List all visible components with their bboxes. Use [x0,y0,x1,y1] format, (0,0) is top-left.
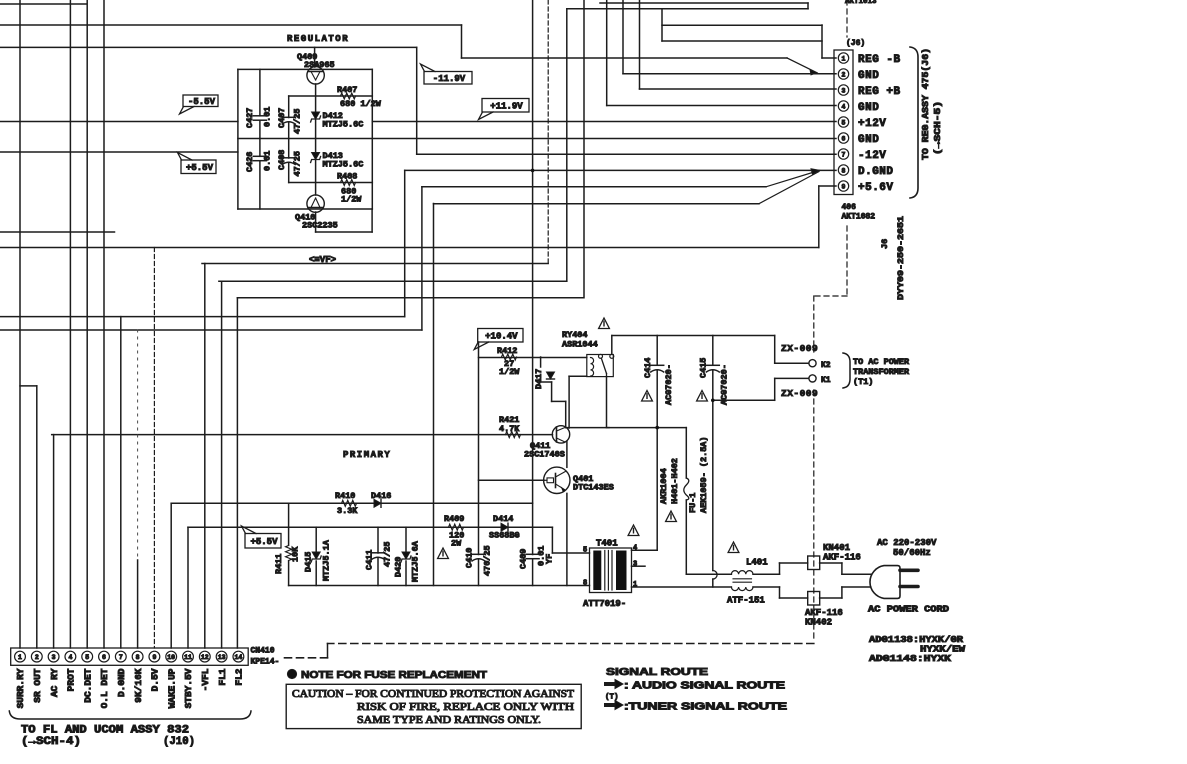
svg-text:<≡VF>: <≡VF> [309,255,336,265]
label D412 [323,111,364,130]
svg-text:D.GND: D.GND [116,668,127,697]
label FU-1 AEK1059 [688,436,709,513]
wire regulator inner top rail [289,95,373,97]
CN410 pin 6 [99,651,110,662]
svg-text:4: 4 [68,654,72,661]
svg-text:C408: C408 [277,150,287,170]
resistor R408 [341,180,356,186]
J6 pin 4 [838,101,848,111]
svg-text:2SC1740S: 2SC1740S [524,450,565,460]
diode D414 [501,523,508,531]
label D420 [394,540,421,582]
svg-text:D.GND: D.GND [858,166,894,178]
CN410 pin 1 [15,651,26,662]
wire vertical x416 [416,47,418,154]
svg-text:R410: R410 [335,491,355,501]
transistor Q410 [307,195,324,212]
tuner route arrow [606,701,623,710]
wire Q401 emitter down [566,493,568,585]
resistor R412 [502,354,517,360]
wire J6 pin1 entry [822,25,836,58]
wire vertical CN410 pin5 [86,0,88,648]
CN410 pin 5 [82,651,93,662]
svg-text:5: 5 [85,654,89,661]
svg-text:ATT7019-: ATT7019- [583,599,626,609]
svg-text:AC POWER CORD: AC POWER CORD [868,605,950,615]
label ADG1148 [869,654,952,664]
label D415 [304,539,332,581]
capacitor C407 [282,116,295,118]
label R411 [274,546,301,574]
svg-text:1: 1 [633,581,637,589]
wire vertical CN410 pin6 [103,0,105,648]
CN410 pin 10 [166,651,177,662]
svg-text:(→SCH-4): (→SCH-4) [21,736,81,748]
wire K1 leg [713,378,809,400]
flag +5.5V lower [245,534,281,549]
wire C415 lower leg with hop [712,400,714,570]
svg-text:DTC143ES: DTC143ES [573,483,614,493]
resistor R410 [342,500,357,506]
label CN410 pin 1 SURR.RY [15,668,26,708]
label NOTE FOR FUSE REPLACEMENT [301,670,487,681]
svg-text:50/60Hz: 50/60Hz [893,548,931,558]
wire C415 column [712,336,714,401]
label J6 small [880,239,890,249]
junction dot K1 branch [711,399,715,403]
svg-text:AKF-116: AKF-116 [823,553,861,563]
svg-text:DYY09-250-2651: DYY09-250-2651 [896,216,906,300]
J6 bracket [910,47,918,198]
svg-text:D416: D416 [371,491,391,501]
J6 pin 2 [838,69,848,79]
svg-text:SURR.RY: SURR.RY [15,668,26,708]
wire GND mid rail to J6 pin6 [238,138,836,140]
svg-text:C414: C414 [643,358,653,378]
wire +10.4V drop [478,342,480,586]
svg-text:STBY.5V: STBY.5V [183,668,194,708]
label J6 pin 5 +12V [858,118,886,130]
label D416 [371,491,391,501]
warning triangle relay [599,318,610,329]
wire D.5V route [0,329,422,331]
J6 pin 5 [838,117,848,127]
svg-text:KPE14-: KPE14- [251,658,280,667]
label AKR1004 H401-H402 [659,458,680,504]
wire coil bottom [569,375,587,377]
label CN410 pin 2 SR OUT [32,668,43,703]
dashed boundary bottom [328,643,814,645]
capacitor C409 [526,553,539,555]
wire zener column [315,84,317,195]
svg-text:ZX-009: ZX-009 [781,343,818,354]
label D417 [534,369,544,389]
J6 pin 9 [838,181,848,191]
junction dot C414 bottom [655,426,659,430]
label CN410 pin 8 9K/16K [133,668,144,703]
svg-text:PROT: PROT [66,668,77,691]
CN410 pin 3 [48,651,59,662]
wire vertical x584 [583,0,585,298]
label J6 pin 2 GND [858,70,879,82]
CN410 pin 9 [149,651,160,662]
svg-text:47/25: 47/25 [293,108,303,134]
zener D412 [312,112,320,119]
label J6 pin 3 REG +B [858,86,901,98]
label C415 [699,358,730,405]
dashed line above J6 [846,0,848,37]
J6 pin 6 [838,133,848,143]
label CN410 pin 4 PROT [66,668,77,691]
wire regulator inner bottom rail [289,182,373,184]
CN410 pin 13 [216,651,227,662]
terminal K1 [809,375,816,382]
svg-text:1/2W: 1/2W [499,367,520,377]
svg-text:7: 7 [119,654,123,661]
svg-text::TUNER SIGNAL ROUTE: :TUNER SIGNAL ROUTE [624,702,787,713]
label Q401 [573,474,614,493]
flag -11.9V [424,72,472,85]
wire FL2 route [237,297,583,299]
svg-text:9K/16K: 9K/16K [133,668,144,703]
dashed stub to KPE14 [283,657,328,659]
svg-text:+11.9V: +11.9V [490,102,523,112]
label Q410 [295,213,338,231]
svg-text:ACG7020-: ACG7020- [720,364,730,405]
svg-text:AC RY: AC RY [49,668,60,697]
wire regulator right rail stub [371,209,373,232]
svg-text:MTZJ5.6C: MTZJ5.6C [323,120,364,130]
svg-text:AC 220-230V: AC 220-230V [877,538,937,548]
wire plug top conductor [753,563,871,574]
label ATF-151 [727,596,765,606]
label KN401 AKF-116 [823,543,861,563]
wire vertical CN410 pin10 [170,503,172,648]
note bullet [287,669,296,678]
svg-text:680 1/2W: 680 1/2W [340,99,382,109]
svg-text:AKR1004: AKR1004 [659,468,669,504]
dashed vertical to AC section [813,296,815,642]
svg-text:4.7K: 4.7K [499,424,520,434]
inductor L401 [731,571,753,591]
svg-text:MTZJ5.6C: MTZJ5.6C [323,160,364,170]
svg-text:TO FL AND UCOM ASSY 832: TO FL AND UCOM ASSY 832 [21,725,189,737]
wire y25 bus right [662,24,822,26]
connector CN410 outline [11,648,249,665]
wire vertical x533 long [532,0,534,586]
svg-text:10K: 10K [291,546,301,562]
label TO AC POWER TRANSFORMER [853,357,910,387]
svg-text:4: 4 [633,545,637,553]
J6 pin 7 [838,149,848,159]
wire regulator top rail [238,68,372,70]
transistor Q411 [552,426,569,443]
label ZX-009 bottom [781,388,818,399]
svg-text:ACG7020-: ACG7020- [664,364,674,405]
label Q409 [297,52,335,70]
wire C415 leg join [712,579,714,587]
J6 pin 3 [838,85,848,95]
terminal K2 [809,360,816,367]
label TO FL AND UCOM ASSY 832 [21,725,189,737]
svg-text:ZX-009: ZX-009 [781,388,818,399]
wire diagonal y187 into pin8 [766,169,820,187]
svg-text:AKT1082: AKT1082 [842,213,876,222]
label T401 pin5 [583,547,587,555]
label ATT7019- [583,599,626,609]
wire vertical CN410 pin14 [236,298,238,648]
caution text line1 [292,689,575,700]
label K2 [821,361,831,370]
diode D416 [374,499,381,507]
svg-text:(J6): (J6) [846,39,865,48]
svg-text:AKF-116: AKF-116 [805,608,843,618]
svg-text:-5.5V: -5.5V [188,97,216,107]
wire vertical CN410 pin3 [53,435,55,648]
svg-text:R409: R409 [444,514,464,524]
label ZX-009 top [781,343,818,354]
fuse FU-1 [684,478,689,500]
svg-text:1/2W: 1/2W [341,195,362,205]
label T401 pin4 [633,545,637,553]
wire diagonal into J6 pin2 [787,58,817,75]
wire REG -B bus [462,25,788,58]
wire D415 column [315,527,317,585]
svg-text:MTZJ5.1A: MTZJ5.1A [322,539,332,581]
wire regulator left rail [237,69,239,209]
wire REG +B bus to J6 pin3 [640,88,837,90]
svg-text:GND: GND [858,134,879,146]
wire Q411 collector [568,376,570,428]
svg-text:C407: C407 [277,108,287,128]
label VF tag [309,255,336,265]
svg-text:RISK OF FIRE, REPLACE ONLY WIT: RISK OF FIRE, REPLACE ONLY WITH [357,702,574,713]
label CN410 pin 12 -VFL [200,668,211,691]
label CN410 [251,647,275,656]
label 406 AKT1082 [842,203,876,222]
transformer T401 [590,548,632,593]
caution text line3 [357,715,541,726]
label DYY09-250-2651 [896,216,906,300]
svg-text:+5.6V: +5.6V [858,182,894,194]
svg-text:10: 10 [167,654,175,661]
wire vertical CN410 pin13 [221,281,223,648]
wire R409 row [188,526,552,528]
label CN410 pin 6 O.L DET [99,668,110,708]
wire C426 column [259,139,261,210]
warning triangle C414 [642,391,653,402]
label KPE14- [251,658,280,667]
svg-text:6: 6 [842,136,846,143]
label AC POWER CORD [868,605,950,615]
svg-text:5: 5 [842,120,846,127]
capacitor C427 [253,115,266,117]
wire C408 column [288,139,290,183]
svg-text:R408: R408 [337,172,357,182]
svg-text:6: 6 [102,654,106,661]
label AUDIO SIGNAL ROUTE [624,681,785,692]
wire vertical CN410 pin7 [120,317,122,648]
warning triangle ladder [438,548,449,559]
relay RY404 [587,354,614,376]
transistor Q401 [544,467,570,493]
wire -12V bus to J6 pin7 [417,153,836,155]
label R408 [337,172,362,205]
svg-text:K2: K2 [821,361,831,370]
svg-text:FU-1: FU-1 [688,493,698,513]
wire elbow CN410 [327,644,329,658]
label RY404 [562,330,598,350]
wire to T401 pin5 [552,527,589,553]
svg-text:ADG1148:HYXK: ADG1148:HYXK [869,654,952,664]
CN410 pin 12 [199,651,210,662]
svg-text:R411: R411 [274,554,284,574]
CN410 pin 2 [31,651,42,662]
label D414 [489,514,520,541]
svg-text:(T1): (T1) [853,377,873,387]
label T401 [596,539,618,549]
svg-text:AEK1059- (2.5A): AEK1059- (2.5A) [699,436,709,513]
wire relay drive R421 feed [52,434,553,436]
warning triangle L401 [728,542,739,553]
svg-text:SS68BG: SS68BG [489,531,520,541]
svg-text:C410: C410 [465,548,475,568]
wire K2 drop [775,336,810,364]
wire vertical CN410 pin2 [36,386,38,648]
label CN410 pin 11 STBY.5V [183,668,194,708]
wire hop over [713,571,717,580]
wire relay blade down [606,377,608,428]
wire y9 route [567,8,808,10]
capacitor C414 [651,364,664,366]
svg-text:2SA965: 2SA965 [304,60,335,70]
svg-text:R412: R412 [497,346,517,356]
svg-text:D420: D420 [394,557,404,577]
svg-text:GND: GND [858,102,879,114]
wire AC bottom conductor [632,586,732,588]
label CN410 pin 10 WAKE.UP [166,668,177,708]
svg-text:GND: GND [858,70,879,82]
wire GND bus to J6 pin4 [607,105,836,107]
svg-text:AKT1013: AKT1013 [845,0,877,6]
label C408 [277,150,303,177]
wire vertical x623 [622,0,624,74]
wire +5.6V bus to J6 pin9 [0,186,836,248]
label R412 [497,346,520,377]
label SCH-4 [21,736,81,748]
label C426 [245,151,273,172]
svg-text:470/25: 470/25 [483,545,493,576]
svg-text:8: 8 [136,654,140,661]
svg-text:D414: D414 [493,514,513,524]
svg-text:ADG1138:HYXK/GR: ADG1138:HYXK/GR [869,635,964,645]
label J6 pin 9 +5.6V [858,182,894,194]
svg-text:8: 8 [842,168,846,175]
J6 pin 8 [838,165,848,175]
label J10 [163,736,195,748]
wire R412 row [479,357,587,359]
wire vertical CN410 pin9 dashed [153,248,155,649]
label CN410 pin 3 AC RY [49,668,60,697]
label J6 pin 6 GND [858,134,879,146]
warning triangle C415 [697,391,708,402]
J6 pin 1 [838,53,848,63]
dashed elbow to transformer line [814,295,847,297]
label ADG1138 [869,635,964,645]
svg-text:H401-H402: H401-H402 [670,458,680,504]
label R421 [499,415,520,434]
svg-text:(J10): (J10) [163,736,195,748]
wire vertical CN410 pin12 [204,264,206,649]
wire regulator right rail [371,69,373,209]
zener D415 [312,552,320,559]
junction dot x533-y170 [531,169,535,173]
warning triangle T401 [628,525,639,536]
svg-text:+12V: +12V [858,118,886,130]
wire top edge stub [0,3,86,5]
wire Q411 emitter to Q401 [566,441,568,467]
svg-text:SR OUT: SR OUT [32,668,43,703]
wire vertical x662 [661,9,663,41]
label T401 pin1 [633,581,637,589]
wire vertical x566 [566,9,568,281]
wire regulator bottom rail [238,208,372,210]
label CN410 pin 9 D.5V [150,668,161,691]
wire T401 pin3 stub [632,565,646,567]
audio route arrow [606,680,623,689]
wire T401 pin4 [632,549,658,551]
label C409 [519,546,555,569]
svg-text:J6: J6 [880,239,890,249]
svg-text:L401: L401 [746,558,768,568]
svg-text:KN402: KN402 [805,618,832,628]
wire D417 branch [541,357,609,428]
wire C411 column [377,527,379,585]
label REGULATOR [287,34,349,44]
transistor Q409 [307,67,324,84]
wire vertical CN410 pin8 lower [137,560,139,648]
svg-text:TO AC POWER: TO AC POWER [853,357,910,367]
svg-text:13: 13 [218,654,226,661]
svg-text:C427: C427 [245,108,255,128]
capacitor C426 [253,155,266,157]
connector J6 outline [834,50,853,195]
wire y3 jog [600,3,808,9]
zener D420 [402,552,410,559]
svg-text:REG +B: REG +B [858,86,901,98]
label TO REG. ASSY 475(J6) [921,48,943,160]
svg-text:47/25: 47/25 [293,151,303,177]
label (T) [605,694,619,702]
wire +12V bus to J6 pin5 [0,121,836,123]
wire D420 column [405,527,407,585]
label L401 [746,558,768,568]
svg-text:406: 406 [842,203,857,212]
wire vertical x549 dashed [547,0,549,264]
svg-text:HYXK/EW: HYXK/EW [920,645,966,655]
svg-text:D417: D417 [534,369,544,389]
wire top rail feed [0,46,417,48]
svg-text:K1: K1 [821,376,831,385]
svg-text:3: 3 [633,561,637,569]
wire D.GND bus to J6 pin8 [405,169,836,171]
capacitor C408 [282,157,295,159]
label T401 pin3 [633,561,637,569]
wire vertical CN410 pin11 [187,527,189,648]
svg-text:3.3K: 3.3K [337,506,358,516]
wire vertical x639 [639,0,641,89]
resistor R407 [341,93,356,99]
